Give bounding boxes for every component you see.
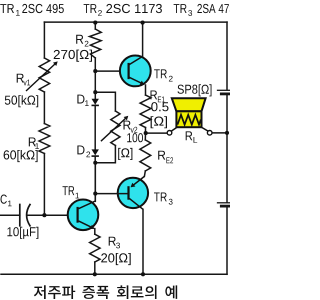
speaker terminal leads [171,127,208,131]
label 0.5 [151,102,168,111]
battery B2 positive plate [218,202,231,204]
node R3 ground [93,272,97,276]
wire C1 to TR1 base [28,214,77,216]
battery B2 negative plate [221,205,230,208]
capacitor C1 right curved plate [27,205,30,226]
capacitor C1 left plate [19,205,21,226]
label ohm RV2 [118,148,132,160]
speaker terminal right [207,131,212,136]
speaker terminal left [167,131,172,136]
resistor R2 270ohm [90,29,102,58]
label D2 [77,146,84,155]
wire left column top [43,22,45,58]
battery B1 positive plate [218,89,231,91]
battery B1 negative plate [221,93,230,96]
TR2 emitter lead with arrow [129,77,144,84]
wire R2 to TR2 base node [94,58,96,71]
label C1 [1,195,7,204]
label SP8 ohm [178,84,212,96]
node TR2 base bias [93,69,97,73]
node speaker rail [225,131,229,135]
wire bottom ground rail [1,273,227,275]
wire TR3 collector to ground rail [142,209,144,274]
label TR2 type header [84,4,97,13]
label D1 [77,95,84,104]
speaker coil winding [178,115,201,125]
caption korean: low-frequency amplifier circuit example [34,285,177,299]
TR2 base bar [128,63,130,79]
label 270 ohm [54,50,92,62]
label RL [186,131,193,140]
node R2 top rail [93,21,97,25]
wire between RV1 and R1 [43,92,45,124]
wire right rail middle [226,95,228,202]
wire output node to speaker [146,132,168,134]
variable resistor RV1 50k [39,58,49,92]
label RV1 [17,74,24,83]
speaker SP horn [172,98,206,111]
label RV2 [124,121,131,130]
label TR2 [154,69,167,78]
RV1 wiper arrow [26,63,56,91]
transistor TR1 2SC495 body [68,200,99,231]
wire R1 to input node [43,154,45,216]
wire D1 to D2 [94,105,96,149]
label RE1 [151,91,158,100]
TR2 collector lead [129,56,142,64]
wire bias node to TR3 base junction [94,163,96,202]
wire RV2 bottom elbow [95,146,115,163]
label 20 ohm [101,253,131,265]
resistor RE1 0.5ohm [140,95,151,128]
variable resistor RV2 100ohm [111,111,120,146]
resistor RE2 [140,140,151,171]
node input C1 [42,213,46,217]
label R3 [109,237,116,246]
node output RE1 RE2 [144,131,148,135]
diode D1 [92,99,99,105]
wire TR1 collector up to bias node [94,163,96,202]
transistor TR2 2SC1173 body [120,56,151,87]
node TR2 collector rail [141,21,145,25]
resistor R3 20ohm [90,234,100,262]
TR1 base bar [76,207,78,223]
TR3 emitter lead with inward arrow (PNP) [131,176,144,186]
label TR3 type header [174,4,187,13]
wire TR2 emitter to RE1 [145,85,147,95]
node RV2 top [93,90,97,94]
label TR1 [63,186,75,195]
wire bias node down [94,71,96,98]
wire TR2 base [95,70,128,72]
label R2 [76,35,83,44]
wire right rail upper [226,22,228,90]
TR3 base bar [127,186,129,200]
wire speaker to right rail [212,132,227,134]
label 10 uF [7,227,38,239]
wire input lead [0,214,20,216]
wire TR1 emitter down [94,229,96,235]
node TR3 collector ground [141,272,145,276]
label 100 [127,133,143,142]
wire RE2 to TR3 emitter [143,171,146,176]
wire D2 to node [94,156,96,163]
TR1 collector lead [79,201,96,209]
node TR3 base tap [93,192,97,196]
resistor R1 60k [39,124,50,154]
TR1 emitter lead with arrow [79,221,94,229]
label TR3 [154,193,167,202]
wire R3 to ground rail [94,262,96,274]
wire RE1 to output node [145,128,147,134]
label 50 kohm [5,95,38,107]
speaker SP coil box RL [176,111,201,127]
TR3 collector lead [129,198,143,209]
label RE2 [158,151,165,160]
wire top supply rail [44,21,227,23]
label 60 kohm [4,150,38,162]
node RV2 bottom [93,161,97,165]
transistor TR3 2SA473 body [118,178,148,208]
label TR1 type header [0,4,14,13]
wire TR2 collector to rail [142,22,144,56]
label ohm RE1 [151,116,167,128]
wire TR3 base [95,193,128,195]
wire right rail lower [226,207,228,274]
RV2 wiper arrow [101,117,127,141]
label R1 [29,138,36,147]
wire RV2 top elbow [95,92,115,111]
diode D2 [92,149,99,155]
wire R2 top lead [94,22,96,29]
